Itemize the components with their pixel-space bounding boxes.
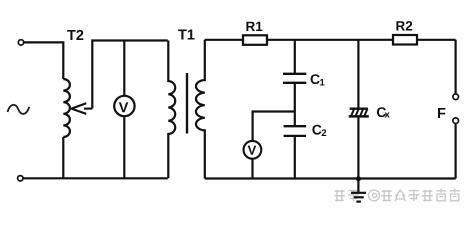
label T2 — [67, 30, 83, 40]
capacitor Cx (hatched sample) — [349, 109, 369, 117]
bottom rail left circuit — [23, 177, 168, 179]
terminal top-left — [18, 40, 23, 45]
label C1 — [311, 74, 325, 85]
label R2 — [396, 21, 412, 30]
label F — [438, 108, 445, 118]
variac T2 coil — [63, 79, 70, 137]
resistor R2 — [393, 35, 417, 45]
wire C1 to C2 — [294, 84, 296, 125]
voltmeter V1 branch wire bottom — [123, 116, 125, 179]
gap terminal F lower — [453, 118, 459, 124]
Cx lower wire — [357, 118, 359, 193]
bottom rail right circuit — [205, 177, 456, 179]
label R1 — [246, 22, 262, 31]
label Cx — [377, 107, 390, 117]
wire right edge bottom — [455, 124, 457, 179]
AC source tilde — [8, 105, 30, 114]
ground — [351, 193, 366, 202]
watermark 知乎 @湖北众拓高试 — [334, 189, 460, 201]
capacitor C1 — [283, 74, 306, 83]
wire R1 to C branch to Cx branch to R2 — [267, 39, 393, 41]
wire C2 to bottom rail — [294, 137, 296, 179]
capacitor branch upper wire — [294, 40, 296, 73]
gap terminal F upper — [453, 94, 459, 100]
terminal bottom-left — [18, 176, 23, 181]
top rail right circuit — [205, 39, 243, 41]
voltmeter V1 branch wire top — [123, 41, 125, 97]
test object Cx upper wire — [357, 40, 359, 108]
transformer T1 core — [186, 73, 188, 134]
resistor R1 — [243, 35, 267, 45]
wire R2 to right corner — [417, 39, 456, 41]
transformer T1 secondary — [196, 40, 205, 179]
capacitor C2 — [284, 126, 307, 136]
wire T2 bottom — [62, 137, 64, 178]
wire C-junction to voltmeter V2 — [253, 112, 295, 142]
voltmeter V1 — [114, 96, 134, 116]
junction dot — [356, 176, 361, 181]
transformer T1 primary — [168, 41, 175, 179]
voltmeter V2 — [244, 141, 262, 159]
wiper wire up and output rail — [92, 41, 168, 109]
wire voltmeter V2 to bottom rail — [251, 159, 253, 179]
wire top-left to T2 top — [24, 42, 63, 79]
wiper arrow of T2 — [71, 103, 92, 114]
label C2 — [312, 125, 326, 136]
label T1 — [178, 30, 194, 40]
wire right edge top — [455, 40, 457, 94]
